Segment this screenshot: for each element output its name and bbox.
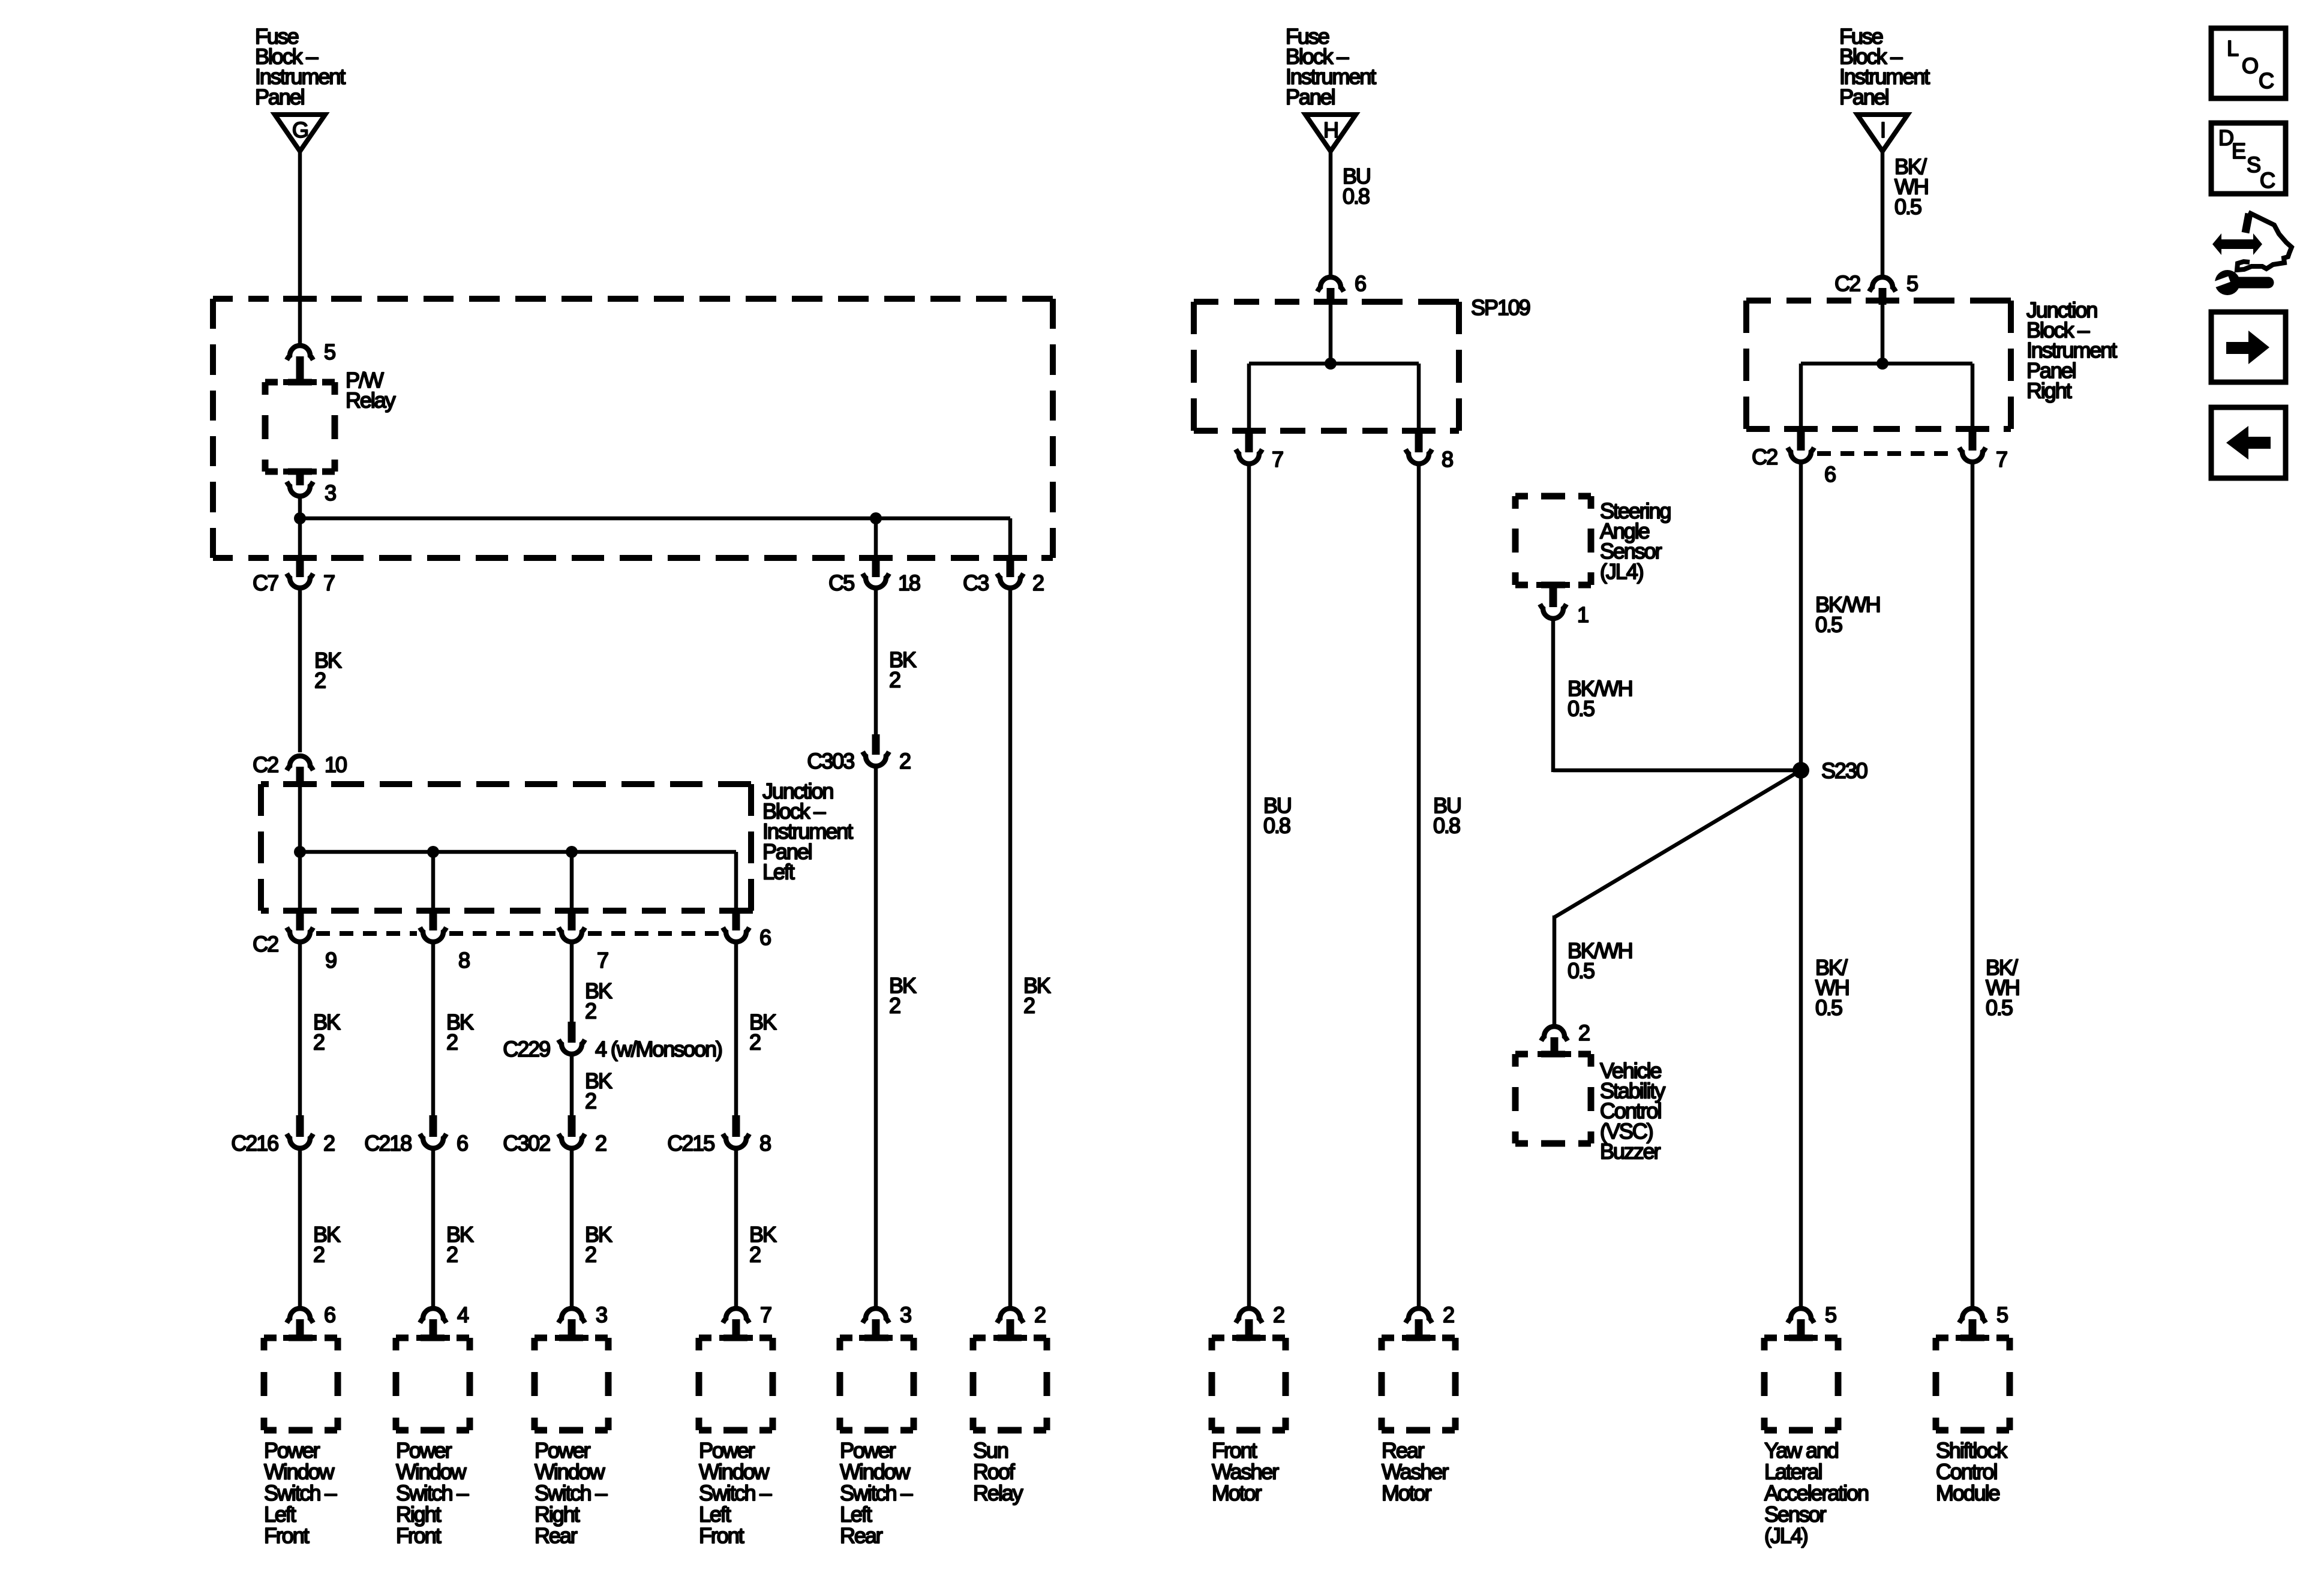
svg-text:SP109: SP109: [1471, 295, 1530, 320]
svg-text:Relay: Relay: [346, 388, 396, 413]
svg-text:7: 7: [1996, 447, 2007, 472]
connector C5 pin 18 exit: [872, 557, 880, 577]
connector pin 6 entry SP109: [1317, 277, 1344, 292]
junction block IP right: [1746, 298, 1771, 304]
shiftlock control module box: [1936, 1338, 2010, 1430]
wire col3 to C229: [570, 944, 574, 1022]
svg-text:C: C: [2259, 68, 2274, 93]
inline connector C218 pin 6: [430, 1115, 437, 1137]
svg-text:C7: C7: [253, 571, 278, 595]
wire into SP109: [1329, 304, 1333, 364]
svg-text:Left: Left: [762, 859, 795, 884]
svg-text:0.8: 0.8: [1343, 184, 1370, 209]
wire I triangle down: [1881, 152, 1885, 275]
legend LOC box: [2211, 28, 2286, 98]
svg-text:C218: C218: [364, 1131, 412, 1155]
wire col4 to C215: [734, 944, 738, 1115]
svg-text:Relay: Relay: [973, 1481, 1023, 1505]
svg-text:0.5: 0.5: [1815, 613, 1842, 637]
power window switch left rear box: [840, 1338, 914, 1430]
wire down to C5 exit: [874, 518, 878, 558]
svg-text:2: 2: [899, 749, 911, 773]
svg-text:Rear: Rear: [535, 1523, 578, 1548]
connector pin 3 entry switch RR: [559, 1308, 585, 1323]
svg-text:18: 18: [898, 571, 920, 595]
VSC buzzer box: [1515, 1054, 1591, 1143]
legend DESC box: [2211, 123, 2286, 194]
inline connector C216 pin 2: [296, 1115, 304, 1137]
svg-text:3: 3: [596, 1302, 607, 1327]
fuse block - instrument panel box: [213, 296, 233, 302]
connector pin 1 exit steering angle sensor: [1536, 582, 1570, 588]
connector pin 2 entry front washer motor: [1236, 1308, 1262, 1323]
svg-text:C216: C216: [231, 1131, 278, 1155]
svg-text:2: 2: [446, 1242, 458, 1267]
svg-text:Buzzer: Buzzer: [1600, 1139, 1661, 1163]
wire C303 to switch: [874, 768, 878, 1307]
svg-text:0.8: 0.8: [1263, 813, 1290, 838]
bus wire junction right: [1801, 362, 1972, 366]
svg-text:S: S: [2247, 152, 2260, 177]
rear washer motor box: [1382, 1338, 1455, 1430]
svg-text:5: 5: [1996, 1302, 2008, 1327]
SP109 junction dot: [1325, 358, 1337, 370]
svg-text:2: 2: [595, 1131, 606, 1155]
svg-text:I: I: [1880, 118, 1885, 142]
svg-text:6: 6: [1355, 271, 1366, 296]
wire into junction right: [1881, 302, 1885, 364]
svg-text:8: 8: [759, 1131, 771, 1155]
fuse block triangle H: [1305, 115, 1356, 151]
svg-text:6: 6: [759, 925, 771, 950]
junction dot col2: [427, 846, 439, 858]
connector pin 5 entry yaw sensor: [1788, 1308, 1814, 1323]
svg-text:2: 2: [323, 1131, 335, 1155]
svg-text:5: 5: [324, 340, 335, 364]
svg-text:10: 10: [325, 752, 347, 777]
wire drop right-left: [1799, 364, 1803, 429]
svg-text:Panel: Panel: [255, 85, 304, 109]
svg-text:C302: C302: [503, 1131, 550, 1155]
svg-text:0.8: 0.8: [1433, 813, 1460, 838]
power window switch right rear box: [535, 1338, 608, 1430]
svg-text:C2: C2: [253, 932, 278, 956]
P/W relay dashed box: [265, 382, 335, 472]
svg-text:6: 6: [457, 1131, 468, 1155]
svg-text:Right: Right: [2026, 378, 2072, 403]
svg-text:1: 1: [1577, 602, 1589, 627]
svg-text:9: 9: [325, 948, 337, 972]
connector C2 pin 7 exit: [1969, 428, 1977, 451]
wire C215 to switch: [734, 1150, 738, 1307]
SP109 splice pack box: [1194, 299, 1218, 305]
svg-text:6: 6: [1824, 462, 1836, 487]
inline connector C229 pin 4: [568, 1022, 576, 1043]
svg-text:2: 2: [585, 1242, 596, 1267]
junction node at pin3 branch: [294, 512, 306, 524]
connector pin 7 entry switch LF2: [723, 1308, 749, 1323]
svg-text:Motor: Motor: [1382, 1481, 1432, 1505]
wire junction right to shiftlock: [1971, 464, 1975, 1307]
svg-text:0.5: 0.5: [1894, 194, 1921, 219]
wire C218 to switch: [431, 1150, 436, 1307]
svg-text:C2: C2: [1834, 271, 1860, 296]
connector pin 2 entry VSC buzzer: [1541, 1026, 1568, 1041]
legend right arrow box: [2211, 312, 2286, 382]
SP109 bus wire: [1249, 362, 1419, 366]
connector pin 3 out of P/W relay: [283, 469, 317, 475]
power window switch left front box: [264, 1338, 338, 1430]
svg-text:6: 6: [324, 1302, 335, 1327]
steering angle sensor box: [1515, 496, 1591, 585]
wire H triangle down: [1329, 152, 1333, 275]
svg-text:O: O: [2242, 53, 2258, 78]
wire C3 down to relay: [1008, 590, 1013, 1307]
svg-text:Rear: Rear: [840, 1523, 883, 1548]
svg-text:4 (w/Monsoon): 4 (w/Monsoon): [595, 1037, 722, 1061]
svg-text:2: 2: [585, 1089, 596, 1113]
svg-text:C3: C3: [963, 571, 989, 595]
wire drop SP109 right: [1417, 364, 1421, 431]
bus wire inside junction block: [300, 850, 736, 854]
junction dot col1: [294, 846, 306, 858]
svg-text:2: 2: [749, 1242, 761, 1267]
svg-text:8: 8: [1442, 447, 1453, 472]
svg-text:Front: Front: [396, 1523, 442, 1548]
svg-text:Motor: Motor: [1212, 1481, 1262, 1505]
wire col2 to C218: [431, 944, 436, 1115]
inline connector C302 pin 2: [568, 1115, 576, 1137]
connector pin 8 exit SP109: [1415, 430, 1423, 452]
svg-text:S230: S230: [1821, 758, 1867, 783]
diagonal wire S230 to VSC: [1554, 770, 1801, 917]
wire C7 drop: [298, 518, 302, 558]
wire junction right to S230: [1799, 464, 1803, 1307]
svg-text:G: G: [292, 118, 308, 142]
wire C229 to C302: [570, 1056, 574, 1115]
inline connector C303 pin 2: [872, 734, 880, 755]
svg-text:5: 5: [1825, 1302, 1836, 1327]
wire C302 to switch: [570, 1150, 574, 1307]
svg-text:2: 2: [1023, 993, 1035, 1018]
svg-text:Module: Module: [1936, 1481, 2000, 1505]
svg-text:2: 2: [749, 1030, 761, 1055]
bus wire inside fuse block: [300, 517, 1010, 521]
wire SAS to S230: [1553, 769, 1801, 773]
svg-text:5: 5: [1906, 271, 1918, 296]
svg-text:2: 2: [446, 1030, 458, 1055]
fuse block triangle I: [1857, 115, 1908, 151]
svg-text:7: 7: [597, 948, 608, 972]
connector C2 pin 10 entry: [287, 756, 313, 770]
C2 connector dotted line: [316, 931, 417, 936]
junction dot right: [1876, 358, 1888, 370]
wire to rear washer motor: [1417, 466, 1421, 1307]
wire drop col3: [570, 852, 574, 911]
connector C2 pin 6 exit: [1797, 428, 1805, 451]
inline connector C215 pin 8: [732, 1115, 740, 1137]
wire SAS down: [1551, 620, 1556, 772]
svg-text:2: 2: [889, 668, 900, 692]
svg-text:(JL4): (JL4): [1600, 559, 1643, 584]
svg-text:7: 7: [1272, 447, 1283, 472]
svg-text:2: 2: [1034, 1302, 1046, 1327]
front washer motor box: [1212, 1338, 1286, 1430]
wire C216 to switch: [298, 1150, 302, 1307]
wire G triangle to pin 5: [298, 152, 302, 344]
wire inside junction block col1: [298, 786, 302, 911]
svg-text:E: E: [2232, 139, 2245, 163]
svg-text:0.5: 0.5: [1986, 995, 2013, 1020]
connector pin 7 exit SP109: [1245, 430, 1253, 452]
legend double arrow: [2212, 233, 2262, 255]
power window switch left front 2 box: [699, 1338, 773, 1430]
connector pin 2 entry rear washer motor: [1406, 1308, 1432, 1323]
connector C2 row exits from junction block left: [296, 909, 304, 930]
svg-text:2: 2: [1578, 1020, 1590, 1045]
svg-text:0.5: 0.5: [1568, 959, 1595, 983]
splice S230: [1792, 762, 1809, 779]
svg-text:C: C: [2260, 168, 2275, 193]
svg-text:C2: C2: [1752, 445, 1777, 469]
junction block IP left: [261, 781, 269, 787]
svg-text:Panel: Panel: [1286, 85, 1335, 109]
legend vehicle outline icon: [2245, 214, 2249, 233]
connector pin 5 into P/W relay: [287, 346, 313, 360]
wire to front washer motor: [1247, 466, 1251, 1307]
svg-text:3: 3: [900, 1302, 911, 1327]
junction dot col3: [566, 846, 578, 858]
connector pin 5 entry shiftlock: [1959, 1308, 1986, 1323]
wire drop right-right: [1971, 364, 1975, 429]
svg-text:Front: Front: [264, 1523, 310, 1548]
junction node above C5: [870, 512, 882, 524]
svg-text:3: 3: [325, 481, 336, 505]
svg-text:4: 4: [457, 1302, 469, 1327]
legend wrench icon: [2215, 270, 2240, 295]
wire drop col4: [734, 852, 738, 911]
svg-text:2: 2: [1443, 1302, 1454, 1327]
wire drop SP109 left: [1247, 364, 1251, 431]
svg-text:2: 2: [1032, 571, 1044, 595]
svg-text:8: 8: [458, 948, 470, 972]
sun roof relay box: [973, 1338, 1047, 1430]
wire VSC down: [1553, 915, 1557, 1025]
svg-text:H: H: [1323, 118, 1338, 142]
svg-text:2: 2: [313, 1030, 325, 1055]
svg-text:C229: C229: [503, 1037, 550, 1061]
svg-text:2: 2: [889, 993, 900, 1018]
wire col1 to C216: [298, 944, 302, 1115]
connector C7 pin 7 exit: [296, 557, 304, 577]
wire pin3 to junction: [298, 497, 302, 518]
legend left arrow box: [2211, 407, 2286, 478]
svg-text:2: 2: [585, 999, 596, 1023]
svg-text:C215: C215: [667, 1131, 714, 1155]
connector pin 4 entry switch RF: [420, 1308, 446, 1323]
yaw and lateral acceleration sensor box: [1764, 1338, 1838, 1430]
connector C2 pin 5 entry junction right: [1869, 277, 1896, 292]
svg-text:7: 7: [323, 571, 335, 595]
svg-text:2: 2: [1273, 1302, 1284, 1327]
svg-text:0.5: 0.5: [1815, 995, 1842, 1020]
wire C5 down to C303: [874, 590, 878, 735]
svg-text:2: 2: [314, 668, 326, 693]
svg-text:2: 2: [313, 1242, 325, 1267]
svg-text:Panel: Panel: [1839, 85, 1888, 109]
svg-text:0.5: 0.5: [1568, 697, 1595, 721]
svg-text:C2: C2: [253, 752, 278, 777]
C2 dotted line right: [1817, 451, 1956, 456]
svg-text:C5: C5: [828, 571, 854, 595]
connector pin 6 entry switch LF: [287, 1308, 313, 1323]
svg-text:Front: Front: [699, 1523, 744, 1548]
power window switch right front box: [396, 1338, 470, 1430]
wire C7 to C2-10: [298, 590, 302, 752]
svg-text:C303: C303: [807, 749, 854, 773]
svg-text:L: L: [2227, 36, 2238, 61]
wire down to C3 exit: [1008, 518, 1013, 558]
connector pin 2 entry sun roof relay: [997, 1308, 1023, 1323]
connector pin 3 entry switch LR: [863, 1308, 889, 1323]
svg-text:7: 7: [760, 1302, 771, 1327]
wire drop col2: [431, 852, 436, 911]
connector C3 pin 2 exit: [1007, 557, 1014, 577]
svg-text:(JL4): (JL4): [1764, 1523, 1807, 1548]
fuse block triangle G: [275, 115, 325, 151]
